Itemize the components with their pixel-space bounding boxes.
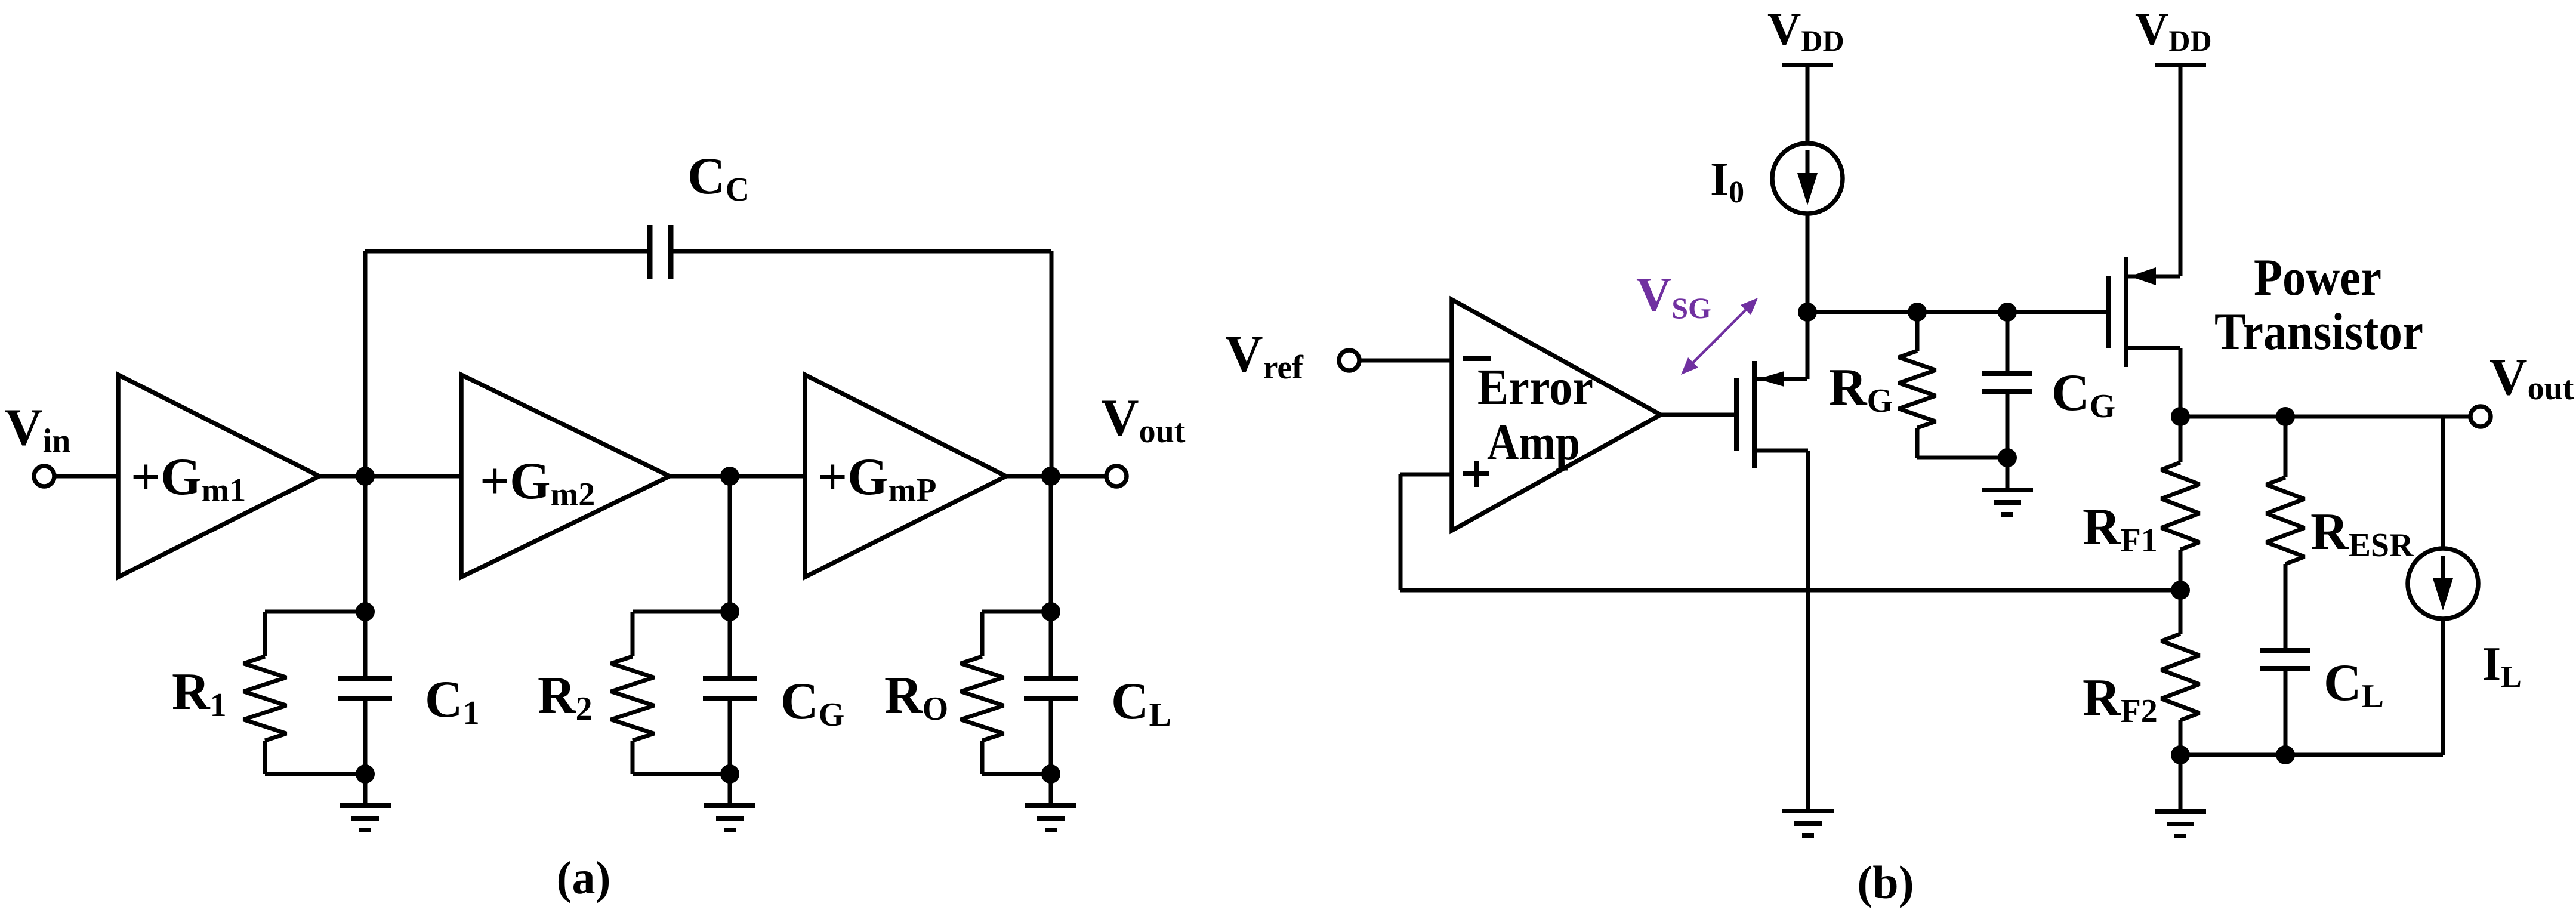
node RF2 bottom junction [2171, 745, 2190, 764]
label RF2 [2083, 669, 2158, 730]
capacitor CG (b) [1982, 374, 2032, 391]
node Vin input terminal [34, 466, 54, 486]
capacitor CL (a) [1024, 678, 1078, 699]
label CG (a) [780, 673, 844, 733]
label Error [1477, 358, 1593, 415]
label +Gm1 [131, 448, 246, 509]
label IL [2482, 638, 2522, 694]
wire bottom rail [2180, 753, 2443, 757]
wire Vout rail [2180, 415, 2471, 419]
wire node3 down to ROCL [1049, 476, 1053, 612]
current source I0 [1772, 143, 1843, 214]
wire RG top lead [1915, 312, 1920, 351]
node CL bottom junction (b) [2276, 745, 2295, 764]
power VDD supply 2 [2155, 63, 2206, 67]
wire R1 bottom branch [265, 741, 365, 774]
wire RF2 bottom lead [2179, 720, 2183, 755]
ground CG (b) [1982, 490, 2033, 514]
resistor RF2 [2161, 634, 2199, 720]
transistor Q1 (PMOS follower) [1736, 361, 1808, 468]
node CG top junction (b) [1998, 303, 2017, 322]
wire CL top lead (a) [1049, 612, 1053, 678]
wire Cc right segment [673, 249, 1051, 254]
wire node2 down to R2CG [728, 476, 732, 612]
label I0 [1710, 153, 1744, 209]
ground (a) stage2 [704, 806, 755, 830]
wire RO bottom branch [982, 741, 1051, 774]
svg-text:Transistor: Transistor [2214, 303, 2423, 361]
power VDD supply 1 [1782, 63, 1833, 67]
resistor RG [1899, 351, 1936, 428]
wire VDD2 down to MP source [2179, 65, 2183, 276]
label RG [1829, 359, 1893, 420]
label CL (a) [1111, 673, 1171, 733]
node feedback junction [2171, 581, 2190, 600]
node Vout-b junction 2 [2276, 407, 2295, 426]
op-amp U1 Error Amp triangle [1452, 300, 1661, 531]
label VDD 1 [1767, 3, 1844, 57]
label R2 [538, 667, 593, 727]
wire RF1 bottom lead [2179, 550, 2183, 590]
resistor RESR [2266, 477, 2304, 564]
svg-text:(a): (a) [557, 852, 611, 903]
op-amp Gm2 (transconductance stage +Gm2) [461, 375, 670, 577]
label CC [687, 147, 749, 208]
wire RG bottom lead [1917, 428, 2007, 458]
label CL (b) [2324, 654, 2384, 715]
label RF1 [2083, 498, 2158, 559]
current source IL [2408, 548, 2478, 619]
wire C1 bottom lead [363, 699, 368, 774]
label +GmP [817, 448, 936, 509]
label RO [884, 667, 948, 727]
label Power [2254, 249, 2381, 307]
ground (a) stage1 [340, 806, 391, 830]
wire Gm1 output to node 1 [319, 474, 461, 479]
wire CL bottom lead (b) [2284, 668, 2288, 755]
wire CL bottom lead (a) [1049, 699, 1053, 774]
svg-text:(b): (b) [1857, 856, 1914, 908]
caption (a) [557, 852, 611, 903]
wire R2 bottom branch [633, 741, 730, 774]
wire I0 to node A [1806, 213, 1810, 312]
node 2 junction [720, 467, 739, 486]
wire RESR to CL [2284, 564, 2288, 650]
node ROCL top junction [1041, 602, 1060, 621]
label VSG [1636, 267, 1711, 325]
annotation arrow VSG [1681, 298, 1758, 375]
label Amp [1487, 414, 1580, 471]
wire Gm2 output to GmP [670, 474, 805, 479]
wire to ground 3 [1049, 774, 1053, 806]
wire CG bottom lead (a) [728, 699, 732, 774]
label R1 [172, 663, 227, 724]
wire RF2 to ground [2179, 755, 2183, 812]
wire Cc down to output node [1050, 251, 1054, 476]
wire RF2 top lead [2179, 590, 2183, 634]
wire node1 vertical up to Cc [363, 251, 368, 476]
node A junction [1798, 303, 1817, 322]
label minus input [1463, 356, 1491, 361]
svg-text:Error: Error [1477, 358, 1593, 415]
wire RF1 top lead [2179, 417, 2183, 462]
wire feedback (+ input to RF node) [1400, 474, 2180, 590]
node R2CG top junction [720, 602, 739, 621]
label CG (b) [2051, 364, 2115, 425]
caption (b) [1857, 856, 1914, 908]
wire Q1 source up to node A [1806, 312, 1810, 379]
capacitor C1 [338, 678, 392, 699]
wire MP drain down to Vout node [2179, 348, 2183, 417]
label plus input [1463, 461, 1489, 487]
wire IL top lead [2441, 417, 2445, 549]
wire R1 top branch [265, 612, 365, 656]
transistor MP (power PMOS) [2108, 257, 2180, 367]
label +Gm2 [480, 452, 595, 513]
op-amp Gm1 (transconductance stage +Gm1) [118, 375, 319, 577]
label RESR [2310, 503, 2414, 564]
node 1 junction [356, 467, 375, 486]
wire node1 down to R1C1 [363, 476, 368, 612]
node RG top junction [1908, 303, 1927, 322]
wire error amp output to Q1 gate [1661, 413, 1734, 417]
node Vout terminal (a) [1106, 466, 1127, 486]
label Transistor [2214, 303, 2423, 361]
wire Cc left segment [365, 249, 647, 254]
node Vout-b junction 1 [2171, 407, 2190, 426]
capacitor CL (b) [2260, 650, 2310, 668]
wire CG top lead (a) [728, 612, 732, 678]
wire IL bottom lead [2441, 618, 2445, 755]
ground Q1 drain [1782, 811, 1834, 835]
wire C1 top lead [363, 612, 368, 678]
label VDD 2 [2135, 3, 2212, 57]
wire RESR top lead [2284, 417, 2288, 477]
svg-text:Power: Power [2254, 249, 2381, 307]
node R2CG bottom junction [720, 764, 739, 784]
label C1 [425, 671, 480, 732]
wire node A to gate rail [1807, 310, 2106, 314]
node R1C1 top junction [356, 602, 375, 621]
resistor RO [961, 656, 1004, 741]
wire CG top lead (b) [2006, 312, 2010, 374]
capacitor CG (a) [703, 678, 757, 699]
wire R2 top branch [633, 612, 730, 656]
node R1C1 bottom junction [356, 764, 375, 784]
wire Vref to error amp [1359, 359, 1452, 363]
label Vout (b) [2489, 348, 2574, 407]
op-amp GmP (power stage +GmP) [805, 375, 1006, 577]
wire to ground 2 [728, 774, 732, 806]
label Vout (a) [1101, 389, 1186, 450]
node Vref input terminal [1339, 350, 1359, 371]
node Vout terminal (b) [2470, 406, 2491, 427]
label Vref [1225, 325, 1304, 386]
node ROCL bottom junction [1041, 764, 1060, 784]
wire GmP output to Vout [1006, 474, 1107, 479]
resistor R2 [611, 656, 654, 741]
svg-text:Amp: Amp [1487, 414, 1580, 471]
wire CG bottom lead (b) [2006, 391, 2010, 458]
wire Q1 drain down to ground [1806, 451, 1810, 811]
wire CG to ground [2006, 458, 2010, 490]
resistor R1 [243, 656, 286, 741]
wire Vin to Gm1 [54, 474, 118, 479]
label Vin [5, 399, 70, 459]
wire RO top branch [982, 612, 1051, 656]
wire to ground 1 [363, 774, 368, 806]
node 3 junction (Vout a) [1041, 467, 1060, 486]
resistor RF1 [2161, 462, 2199, 550]
wire VDD1 to I0 [1806, 65, 1810, 144]
ground (a) stage3 [1025, 806, 1076, 830]
ground RF2 [2155, 812, 2206, 836]
node CG bottom junction (b) [1998, 448, 2017, 467]
capacitor CC (plates) [650, 225, 671, 279]
